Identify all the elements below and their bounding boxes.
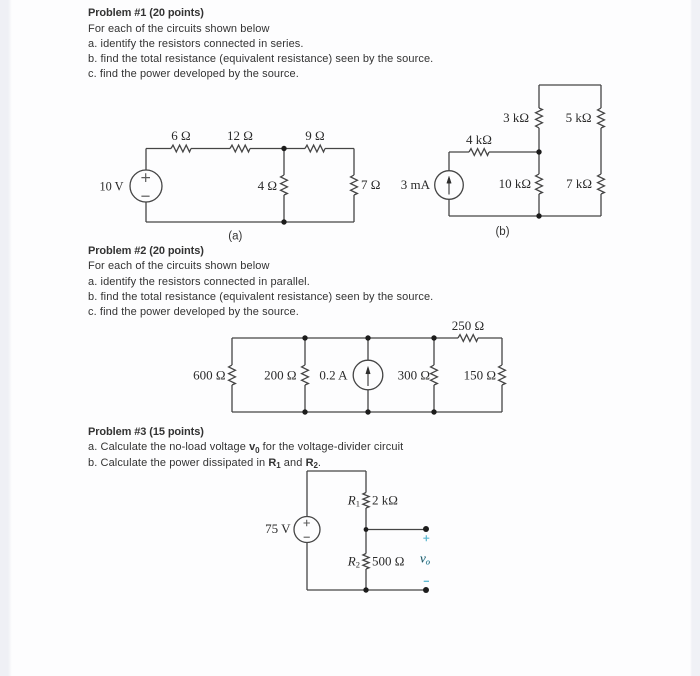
label 3 kohm (503, 110, 529, 125)
resistor R 4kohm (469, 149, 489, 156)
wire: source top to mid wire (448, 152, 450, 171)
svg-text:4 Ω: 4 Ω (258, 178, 277, 193)
terminal dot p3 out top (423, 526, 429, 532)
svg-text:(a): (a) (228, 231, 242, 243)
svg-text:7 kΩ: 7 kΩ (566, 176, 592, 191)
label 9 ohm (305, 128, 324, 143)
wire: bottom rail of b (449, 215, 601, 217)
svg-text:10 kΩ: 10 kΩ (499, 176, 531, 191)
label 12 ohm (227, 128, 253, 143)
resistor R 4ohm vertical (281, 175, 288, 195)
wire: center column 10k to bottom (538, 194, 540, 216)
svg-text:150 Ω: 150 Ω (464, 368, 496, 383)
resistor R 200ohm vertical (302, 365, 309, 385)
svg-text:3 kΩ: 3 kΩ (503, 110, 529, 125)
wire: 200ohm branch upper (304, 338, 306, 365)
resistor R 600ohm vertical (229, 365, 236, 385)
output minus sign teal (424, 580, 429, 582)
node dot circuit a top (281, 146, 286, 151)
output vo label teal (420, 551, 430, 567)
wire: center column above 3k (538, 128, 540, 152)
svg-text:75 V: 75 V (265, 521, 291, 536)
wire: top rail of b (539, 84, 601, 86)
wire: 200ohm branch lower (304, 385, 306, 412)
svg-text:600 Ω: 600 Ω (193, 368, 225, 383)
label 7 kohm (566, 176, 592, 191)
wire: bottom rail p3 (307, 589, 426, 591)
wire: 300ohm branch upper (433, 338, 435, 365)
svg-text:(b): (b) (495, 226, 509, 238)
wire: source branch upper p2 (367, 338, 369, 360)
svg-text:12 Ω: 12 Ω (227, 128, 253, 143)
node dot circuit b bottom (536, 213, 541, 218)
minus sign in VS1 (141, 195, 149, 197)
wire: mid node to R2 (365, 530, 367, 554)
label 75 V (265, 521, 291, 536)
label 10 kohm (499, 176, 531, 191)
resistor R 300ohm vertical (431, 365, 438, 385)
node dot p2 top 300 (431, 335, 436, 340)
svg-text:0.2 A: 0.2 A (319, 368, 348, 383)
resistor R 9ohm (305, 145, 325, 152)
wire: center column node to 10k (538, 152, 540, 174)
output plus sign teal (423, 535, 429, 541)
svg-text:2 kΩ: 2 kΩ (372, 493, 398, 508)
wire: source top to top rail p3 (306, 471, 308, 517)
wire: right branch lower of 7ohm (353, 195, 355, 222)
wire: top rail 12ohm to node (250, 148, 305, 150)
current source arrow (447, 176, 451, 194)
wire: right column top to 5k (600, 85, 602, 108)
wire: mid wire to 4k (449, 151, 469, 153)
resistor R 10kohm vertical (536, 174, 543, 194)
resistor R 250ohm (458, 335, 478, 342)
svg-text:vo: vo (420, 551, 430, 567)
right page edge strip (690, 0, 700, 676)
resistor R2 500ohm vertical (363, 554, 369, 569)
svg-text:6 Ω: 6 Ω (171, 128, 190, 143)
wire: source top to top rail corner (145, 149, 147, 171)
resistor R1 2kohm vertical (363, 493, 369, 508)
voltage source VS1 10V circle (130, 170, 162, 202)
wire: source bottom to bottom rail (448, 199, 450, 216)
plus sign in VS1 (141, 173, 150, 182)
voltage source VS2 75V circle (294, 517, 320, 543)
wire: right column 5k to 7k (600, 128, 602, 174)
svg-text:7 Ω: 7 Ω (361, 177, 380, 192)
wire: source bottom to bottom rail p3 (306, 543, 308, 591)
svg-text:500 Ω: 500 Ω (372, 554, 404, 569)
label 300 ohm (398, 368, 430, 383)
label 6 ohm (171, 128, 190, 143)
label R1 (347, 493, 360, 509)
current source IS1 3mA circle (435, 171, 464, 200)
svg-text:300 Ω: 300 Ω (398, 368, 430, 383)
wire: left branch lower p2 (231, 385, 233, 412)
label 500 ohm (372, 554, 404, 569)
wire: R1 to mid node (365, 508, 367, 530)
Problem 3 text block (88, 425, 403, 471)
label 150 ohm (464, 368, 496, 383)
node dot p2 top source (365, 335, 370, 340)
wire: center column 3k to top rail (538, 85, 540, 108)
Problem 1 text block (88, 6, 433, 82)
wire: top rail p2 left part (232, 337, 458, 339)
node dot p3 mid (364, 527, 369, 532)
wire: right branch upper of 7ohm (353, 149, 355, 176)
wire: R1 branch upper (365, 471, 367, 493)
node dot p3 bottom (363, 587, 368, 592)
label 3 mA (401, 177, 431, 192)
svg-text:9 Ω: 9 Ω (305, 128, 324, 143)
wire: left branch of p2 (231, 338, 233, 365)
label (a) (228, 231, 242, 243)
label 2 kohm (372, 493, 398, 508)
node dot circuit a bottom (281, 219, 286, 224)
node dot p2 bottom source (365, 409, 370, 414)
label (b) (495, 226, 509, 238)
wire: top rail between 6ohm and 12ohm (191, 148, 230, 150)
svg-text:3 mA: 3 mA (401, 177, 431, 192)
label 7 ohm (361, 177, 380, 192)
svg-text:4 kΩ: 4 kΩ (466, 132, 492, 147)
wire: R2 to bottom rail (365, 569, 367, 590)
left page edge strip (0, 0, 12, 676)
svg-text:200 Ω: 200 Ω (264, 368, 296, 383)
svg-text:250 Ω: 250 Ω (452, 318, 484, 333)
Problem 2 text block (88, 244, 433, 320)
terminal dot p3 out bottom (423, 587, 429, 593)
label 600 ohm (193, 368, 225, 383)
wire: top rail left segment (146, 148, 171, 150)
node dot p2 bottom 200 (302, 409, 307, 414)
resistor R 5kohm vertical (598, 108, 605, 128)
svg-text:10 V: 10 V (100, 179, 125, 194)
wire: 4ohm branch upper (283, 149, 285, 176)
label 4 kohm (466, 132, 492, 147)
svg-text:R2: R2 (347, 554, 360, 570)
current source IS2 arrow (366, 367, 370, 387)
wire: right branch p2 upper (501, 338, 503, 365)
resistor R 7kohm vertical (598, 174, 605, 194)
resistor R 3kohm vertical (536, 108, 543, 128)
label 250 ohm (452, 318, 484, 333)
current source IS2 0.2A circle (353, 360, 383, 390)
resistor R 6ohm (171, 145, 191, 152)
svg-text:5 kΩ: 5 kΩ (566, 110, 592, 125)
node dot circuit b mid (536, 149, 541, 154)
label R2 (347, 554, 360, 570)
wire: source bottom to bottom rail corner (145, 202, 147, 222)
svg-text:R1: R1 (347, 493, 360, 509)
wire: source branch lower p2 (367, 390, 369, 412)
label 5 kohm (566, 110, 592, 125)
wire: 4k to center node (489, 151, 539, 153)
wire: right column 7k to bottom (600, 194, 602, 216)
label 0.2 A (319, 368, 348, 383)
resistor R 150ohm vertical (499, 365, 506, 385)
wire: top rail p3 (307, 470, 366, 472)
wire: mid node to output terminal (366, 529, 426, 531)
node dot p2 bottom 300 (431, 409, 436, 414)
wire: right branch p2 lower (501, 385, 503, 412)
wire: top rail p2 right part (478, 337, 502, 339)
wire: 4ohm branch lower (283, 195, 285, 222)
label 200 ohm (264, 368, 296, 383)
label 10 V (100, 179, 125, 194)
wire: 300ohm branch lower (433, 385, 435, 412)
resistor R 12ohm (230, 145, 250, 152)
wire: bottom rail circuit a (146, 221, 354, 223)
wire: top rail 9ohm to right corner (325, 148, 354, 150)
minus sign in VS2 (304, 536, 310, 538)
resistor R 7ohm vertical (351, 175, 358, 195)
label 4 ohm (258, 178, 277, 193)
plus sign in VS2 (304, 520, 310, 526)
wire: bottom rail p2 (232, 411, 502, 413)
node dot p2 top 200 (302, 335, 307, 340)
